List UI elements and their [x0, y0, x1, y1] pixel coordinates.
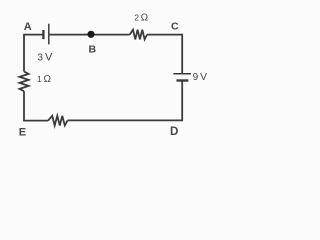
- resistor R2 1-ohm vertical zigzag: [20, 72, 29, 92]
- wire right vertical upper (C down to 9V battery): [181, 34, 183, 73]
- svg-text:B: B: [89, 44, 97, 56]
- wire right vertical lower (9V battery down to D): [181, 81, 183, 121]
- battery B1 3V long thin plate: [48, 24, 50, 45]
- node B junction dot: [87, 31, 94, 38]
- wire left vertical lower (E up to 1-ohm resistor): [23, 91, 25, 121]
- svg-text:2 Ω: 2 Ω: [134, 12, 148, 23]
- svg-text:D: D: [170, 126, 178, 138]
- wire bottom left (bottom resistor to E): [23, 120, 48, 122]
- svg-text:1 Ω: 1 Ω: [37, 74, 51, 85]
- battery B1 3V short thick plate: [42, 30, 44, 39]
- wire A to 3V battery (top-left horizontal): [24, 34, 43, 36]
- svg-text:E: E: [19, 127, 26, 139]
- battery B2 9V long thin plate: [173, 73, 191, 75]
- wire battery to node B to 2-ohm resistor: [50, 34, 130, 36]
- wire 2-ohm resistor to C: [147, 34, 182, 36]
- resistor R3 bottom zigzag: [48, 116, 67, 126]
- svg-text:C: C: [171, 21, 179, 33]
- svg-text:A: A: [24, 21, 32, 33]
- battery B2 9V short thick plate: [177, 79, 189, 81]
- svg-text:3 V: 3 V: [37, 52, 53, 64]
- wire left vertical upper (A down to 1-ohm resistor): [23, 34, 25, 72]
- wire bottom right (D to bottom resistor): [68, 119, 184, 121]
- resistor R1 2-ohm zigzag: [130, 30, 147, 40]
- svg-text:9 V: 9 V: [193, 72, 208, 83]
